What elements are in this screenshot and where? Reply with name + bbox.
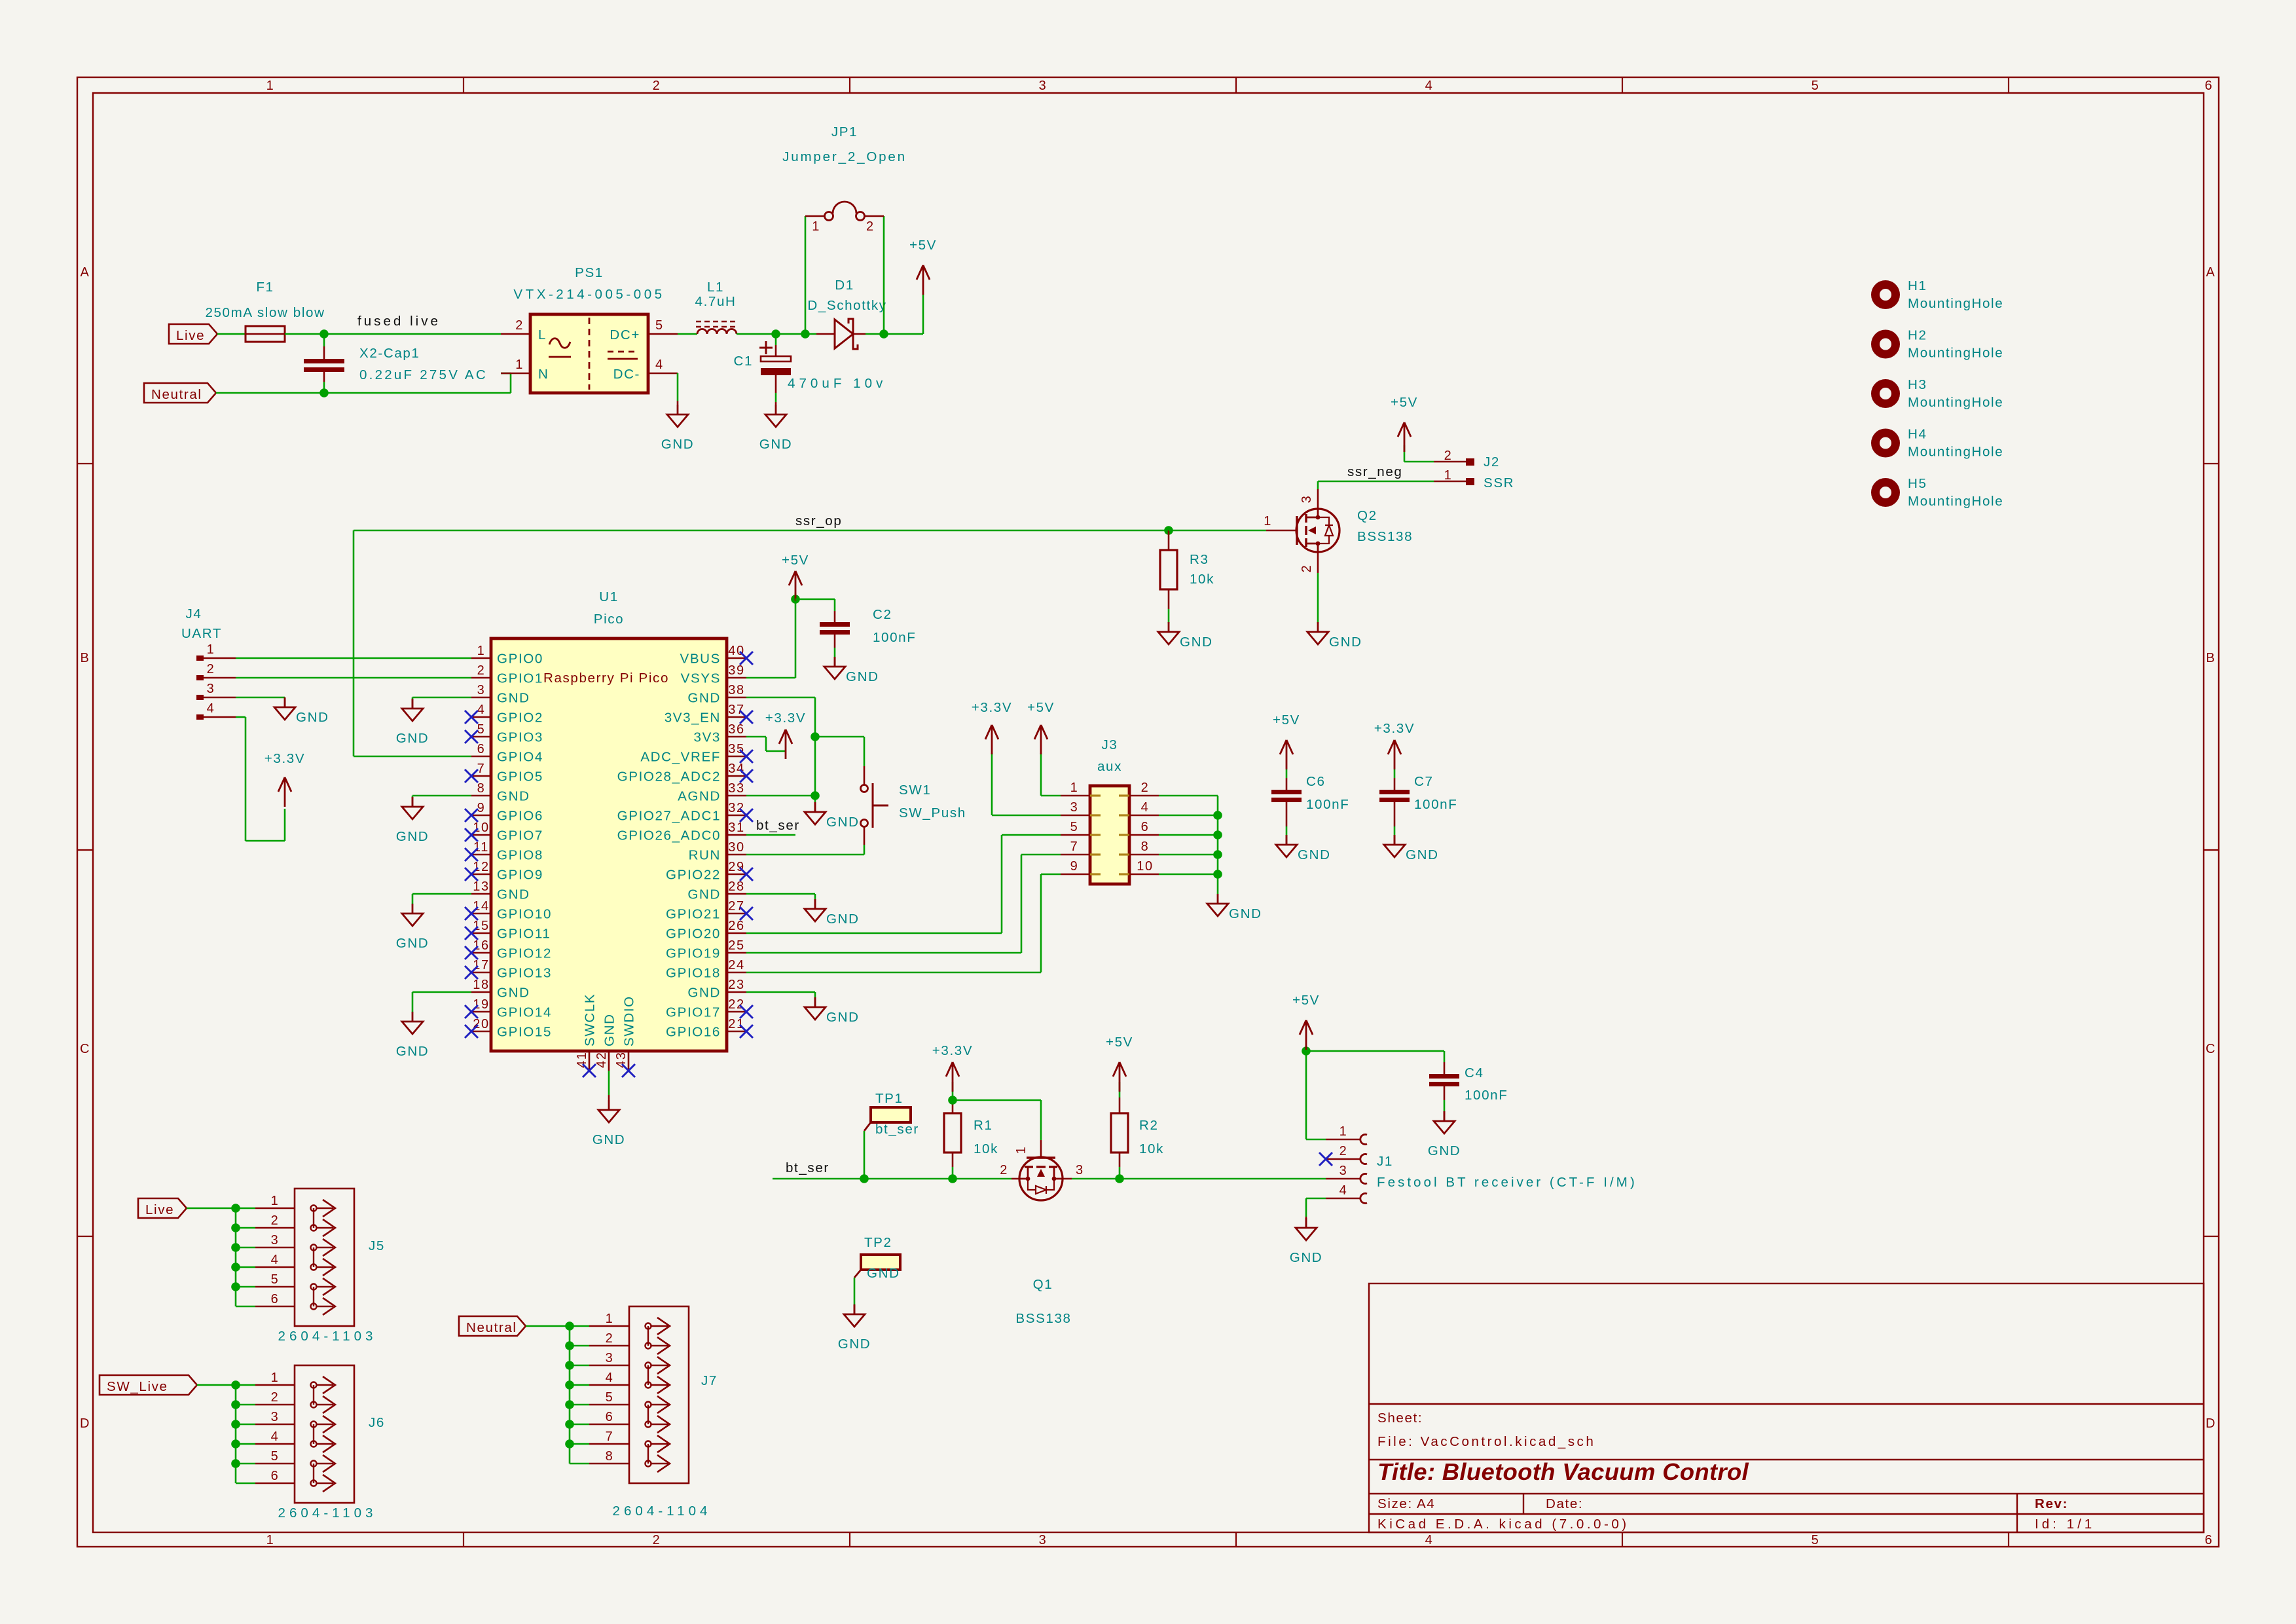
svg-text:GND: GND xyxy=(497,789,530,804)
svg-text:GND: GND xyxy=(661,437,695,452)
svg-text:43: 43 xyxy=(614,1052,629,1068)
svg-text:GND: GND xyxy=(1290,1250,1323,1265)
svg-text:35: 35 xyxy=(728,742,744,756)
svg-text:UART: UART xyxy=(181,626,222,641)
svg-text:Q1: Q1 xyxy=(1033,1277,1053,1292)
svg-text:14: 14 xyxy=(473,899,489,913)
svg-text:+3.3V: +3.3V xyxy=(765,710,806,726)
svg-text:13: 13 xyxy=(473,879,489,894)
svg-text:Date:: Date: xyxy=(1546,1496,1583,1511)
svg-text:2: 2 xyxy=(1444,449,1453,463)
svg-text:3: 3 xyxy=(1339,1164,1348,1178)
svg-text:GPIO18: GPIO18 xyxy=(666,966,721,981)
svg-text:24: 24 xyxy=(728,958,744,972)
svg-text:2: 2 xyxy=(606,1331,614,1346)
svg-text:bt_ser: bt_ser xyxy=(875,1122,919,1137)
svg-text:4: 4 xyxy=(271,1430,280,1444)
svg-text:4: 4 xyxy=(271,1253,280,1267)
svg-text:10k: 10k xyxy=(1139,1141,1164,1156)
svg-text:C2: C2 xyxy=(873,607,892,622)
svg-text:34: 34 xyxy=(728,762,744,776)
svg-text:Size: A4: Size: A4 xyxy=(1377,1496,1435,1511)
svg-text:1: 1 xyxy=(606,1312,614,1326)
svg-text:4: 4 xyxy=(606,1371,614,1385)
svg-text:B: B xyxy=(81,651,90,665)
svg-text:A: A xyxy=(2206,265,2216,280)
svg-text:VTX-214-005-005: VTX-214-005-005 xyxy=(513,287,665,302)
svg-text:GPIO11: GPIO11 xyxy=(497,927,551,942)
svg-text:GPIO1: GPIO1 xyxy=(497,671,543,686)
svg-text:VBUS: VBUS xyxy=(680,652,721,667)
svg-text:5: 5 xyxy=(271,1272,280,1287)
svg-text:GND: GND xyxy=(396,1044,429,1059)
svg-text:Festool BT receiver (CT-F I/M): Festool BT receiver (CT-F I/M) xyxy=(1377,1175,1637,1190)
svg-text:2: 2 xyxy=(1141,781,1150,795)
svg-text:AGND: AGND xyxy=(678,789,721,804)
svg-text:Title: Bluetooth Vacuum Contro: Title: Bluetooth Vacuum Control xyxy=(1377,1458,1749,1485)
svg-text:H3: H3 xyxy=(1908,377,1927,392)
svg-text:MountingHole: MountingHole xyxy=(1908,296,2003,311)
svg-text:4: 4 xyxy=(477,703,486,717)
svg-text:ADC_VREF: ADC_VREF xyxy=(640,750,721,765)
svg-text:2: 2 xyxy=(653,79,661,93)
svg-text:5: 5 xyxy=(1812,1533,1820,1547)
svg-text:ssr_op: ssr_op xyxy=(795,513,842,528)
svg-text:GND: GND xyxy=(497,691,530,706)
svg-text:VSYS: VSYS xyxy=(681,671,721,686)
svg-text:H1: H1 xyxy=(1908,278,1927,293)
svg-text:36: 36 xyxy=(728,722,744,737)
svg-text:MountingHole: MountingHole xyxy=(1908,395,2003,410)
svg-text:2: 2 xyxy=(271,1390,280,1405)
svg-text:GPIO16: GPIO16 xyxy=(666,1025,721,1040)
svg-text:1: 1 xyxy=(1339,1124,1348,1139)
svg-text:D1: D1 xyxy=(835,278,854,293)
svg-text:J7: J7 xyxy=(701,1373,718,1388)
svg-text:X2-Cap1: X2-Cap1 xyxy=(359,346,420,361)
svg-text:C1: C1 xyxy=(733,354,753,369)
svg-text:6: 6 xyxy=(2205,1533,2214,1547)
svg-text:GND: GND xyxy=(592,1132,626,1147)
svg-text:C4: C4 xyxy=(1465,1065,1484,1080)
svg-text:BSS138: BSS138 xyxy=(1015,1311,1071,1326)
svg-text:10: 10 xyxy=(1137,859,1153,874)
svg-text:1: 1 xyxy=(271,1194,280,1208)
svg-text:21: 21 xyxy=(728,1017,744,1031)
svg-text:GPIO14: GPIO14 xyxy=(497,1005,552,1020)
svg-text:4: 4 xyxy=(1339,1183,1348,1198)
svg-text:MountingHole: MountingHole xyxy=(1908,445,2003,460)
svg-text:Pico: Pico xyxy=(594,612,624,627)
svg-text:GND: GND xyxy=(396,829,429,844)
svg-text:4: 4 xyxy=(1425,79,1434,93)
svg-text:L1: L1 xyxy=(707,280,724,295)
svg-text:Sheet:: Sheet: xyxy=(1377,1411,1423,1426)
svg-text:SW_Push: SW_Push xyxy=(899,805,966,821)
svg-text:1: 1 xyxy=(1444,468,1453,483)
svg-text:1: 1 xyxy=(266,79,275,93)
svg-text:1: 1 xyxy=(812,219,820,234)
svg-text:2: 2 xyxy=(1300,564,1314,573)
svg-text:470uF 10v: 470uF 10v xyxy=(788,376,886,391)
svg-text:DC-: DC- xyxy=(613,367,640,382)
svg-text:4: 4 xyxy=(207,701,215,716)
svg-text:GPIO21: GPIO21 xyxy=(666,907,721,922)
svg-text:9: 9 xyxy=(477,801,486,815)
svg-text:+3.3V: +3.3V xyxy=(932,1043,973,1058)
svg-text:7: 7 xyxy=(477,762,486,776)
svg-text:Raspberry Pi Pico: Raspberry Pi Pico xyxy=(543,671,669,686)
svg-text:1: 1 xyxy=(1264,514,1272,528)
svg-text:C: C xyxy=(2206,1042,2216,1056)
svg-text:2: 2 xyxy=(271,1213,280,1228)
svg-text:GND: GND xyxy=(396,731,429,746)
svg-text:GND: GND xyxy=(867,1266,900,1281)
svg-text:GND: GND xyxy=(1329,635,1362,650)
svg-text:1: 1 xyxy=(477,644,486,658)
svg-text:DC+: DC+ xyxy=(610,327,640,342)
svg-text:7: 7 xyxy=(606,1430,614,1444)
svg-text:GPIO17: GPIO17 xyxy=(666,1005,721,1020)
svg-text:23: 23 xyxy=(728,978,744,992)
svg-text:18: 18 xyxy=(473,978,489,992)
svg-text:ssr_neg: ssr_neg xyxy=(1347,464,1402,479)
svg-text:SSR: SSR xyxy=(1484,475,1514,490)
svg-text:GPIO8: GPIO8 xyxy=(497,848,543,863)
svg-text:R1: R1 xyxy=(974,1118,993,1133)
svg-text:+3.3V: +3.3V xyxy=(1374,721,1415,736)
svg-text:SWCLK: SWCLK xyxy=(583,993,598,1046)
svg-text:3: 3 xyxy=(1076,1163,1084,1177)
svg-text:3: 3 xyxy=(271,1233,280,1247)
svg-text:31: 31 xyxy=(728,821,744,835)
svg-text:1: 1 xyxy=(1014,1146,1029,1154)
svg-text:6: 6 xyxy=(2205,79,2214,93)
svg-text:bt_ser: bt_ser xyxy=(786,1160,829,1175)
svg-text:+5V: +5V xyxy=(1106,1035,1133,1050)
svg-text:GPIO27_ADC1: GPIO27_ADC1 xyxy=(617,809,721,824)
svg-text:2604-1103: 2604-1103 xyxy=(278,1505,377,1521)
svg-text:5: 5 xyxy=(271,1449,280,1464)
svg-text:5: 5 xyxy=(606,1390,614,1405)
svg-text:GND: GND xyxy=(602,1013,617,1046)
svg-text:GPIO0: GPIO0 xyxy=(497,652,543,667)
svg-text:32: 32 xyxy=(728,801,744,815)
svg-text:GND: GND xyxy=(687,887,721,902)
svg-text:28: 28 xyxy=(728,879,744,894)
svg-text:3: 3 xyxy=(606,1351,614,1365)
svg-text:3V3_EN: 3V3_EN xyxy=(665,710,721,726)
svg-text:3: 3 xyxy=(271,1410,280,1424)
svg-text:100nF: 100nF xyxy=(1465,1088,1508,1103)
svg-text:2: 2 xyxy=(477,663,486,678)
svg-text:GND: GND xyxy=(1229,906,1262,921)
svg-text:C: C xyxy=(80,1042,90,1056)
svg-text:GPIO5: GPIO5 xyxy=(497,769,543,784)
svg-text:J1: J1 xyxy=(1377,1154,1393,1169)
svg-text:17: 17 xyxy=(473,958,489,972)
svg-text:27: 27 xyxy=(728,899,744,913)
svg-text:GND: GND xyxy=(826,1010,860,1025)
svg-text:SW1: SW1 xyxy=(899,783,931,798)
svg-text:KiCad E.D.A. kicad (7.0.0-0): KiCad E.D.A. kicad (7.0.0-0) xyxy=(1377,1517,1630,1532)
svg-text:GND: GND xyxy=(497,986,530,1001)
svg-text:GPIO6: GPIO6 xyxy=(497,809,543,824)
svg-text:2: 2 xyxy=(515,318,524,333)
svg-text:Live: Live xyxy=(145,1202,174,1217)
svg-text:GPIO4: GPIO4 xyxy=(497,750,543,765)
svg-text:aux: aux xyxy=(1097,759,1122,774)
svg-text:+5V: +5V xyxy=(1273,712,1300,728)
svg-text:GND: GND xyxy=(826,912,860,927)
svg-text:H5: H5 xyxy=(1908,476,1927,491)
svg-text:GPIO12: GPIO12 xyxy=(497,946,552,961)
svg-text:2604-1103: 2604-1103 xyxy=(278,1329,377,1344)
svg-text:16: 16 xyxy=(473,938,489,953)
svg-text:4.7uH: 4.7uH xyxy=(695,294,737,309)
svg-text:GND: GND xyxy=(687,986,721,1001)
svg-text:5: 5 xyxy=(655,318,664,333)
svg-text:GND: GND xyxy=(1406,847,1439,862)
svg-text:GPIO15: GPIO15 xyxy=(497,1025,552,1040)
svg-text:GND: GND xyxy=(296,710,329,725)
svg-text:D: D xyxy=(2206,1416,2216,1431)
svg-text:JP1: JP1 xyxy=(831,124,858,139)
svg-text:MountingHole: MountingHole xyxy=(1908,494,2003,509)
svg-text:3: 3 xyxy=(1039,1533,1048,1547)
svg-text:29: 29 xyxy=(728,860,744,874)
svg-text:J3: J3 xyxy=(1102,737,1118,752)
svg-text:GND: GND xyxy=(396,936,429,951)
svg-text:+5V: +5V xyxy=(1391,395,1418,410)
svg-text:GPIO9: GPIO9 xyxy=(497,868,543,883)
svg-text:L: L xyxy=(538,327,547,342)
svg-text:100nF: 100nF xyxy=(1414,797,1457,812)
svg-text:40: 40 xyxy=(728,644,744,658)
svg-text:J4: J4 xyxy=(186,606,202,621)
svg-text:C7: C7 xyxy=(1414,774,1434,789)
svg-text:5: 5 xyxy=(1812,79,1820,93)
svg-text:BSS138: BSS138 xyxy=(1357,529,1413,544)
svg-text:R3: R3 xyxy=(1190,552,1209,567)
svg-text:3V3: 3V3 xyxy=(694,730,721,745)
svg-text:4: 4 xyxy=(655,358,664,372)
svg-text:fused live: fused live xyxy=(357,314,441,329)
svg-text:8: 8 xyxy=(477,781,486,796)
svg-text:26: 26 xyxy=(728,919,744,933)
svg-text:+5V: +5V xyxy=(909,238,937,253)
svg-text:39: 39 xyxy=(728,663,744,678)
svg-text:J6: J6 xyxy=(369,1415,385,1430)
svg-text:MountingHole: MountingHole xyxy=(1908,346,2003,361)
svg-text:GND: GND xyxy=(759,437,793,452)
svg-text:10: 10 xyxy=(473,821,489,835)
svg-text:15: 15 xyxy=(473,919,489,933)
svg-text:Neutral: Neutral xyxy=(466,1320,517,1335)
svg-text:+5V: +5V xyxy=(1027,700,1055,715)
svg-text:Neutral: Neutral xyxy=(151,387,202,402)
svg-text:1: 1 xyxy=(266,1533,275,1547)
svg-text:GPIO7: GPIO7 xyxy=(497,828,543,843)
svg-text:12: 12 xyxy=(473,860,489,874)
svg-text:10k: 10k xyxy=(974,1141,998,1156)
svg-text:3: 3 xyxy=(477,683,486,697)
svg-text:N: N xyxy=(538,367,549,382)
svg-text:TP2: TP2 xyxy=(864,1235,892,1250)
svg-text:GPIO26_ADC0: GPIO26_ADC0 xyxy=(617,828,721,843)
svg-text:+3.3V: +3.3V xyxy=(972,700,1012,715)
svg-text:2: 2 xyxy=(1339,1144,1348,1158)
svg-text:Q2: Q2 xyxy=(1357,508,1377,523)
svg-text:100nF: 100nF xyxy=(1306,797,1349,812)
svg-text:C6: C6 xyxy=(1306,774,1326,789)
svg-text:100nF: 100nF xyxy=(873,630,916,645)
svg-text:42: 42 xyxy=(594,1052,609,1068)
svg-text:GND: GND xyxy=(1180,635,1213,650)
svg-text:3: 3 xyxy=(1039,79,1048,93)
svg-text:H4: H4 xyxy=(1908,427,1927,442)
svg-text:+5V: +5V xyxy=(782,553,809,568)
svg-text:7: 7 xyxy=(1070,840,1079,854)
svg-text:37: 37 xyxy=(728,703,744,717)
svg-text:1: 1 xyxy=(207,642,215,657)
svg-text:TP1: TP1 xyxy=(875,1091,903,1106)
svg-text:1: 1 xyxy=(1070,781,1079,795)
svg-text:SWDIO: SWDIO xyxy=(622,995,637,1046)
svg-text:Rev:: Rev: xyxy=(2035,1496,2068,1511)
svg-text:1: 1 xyxy=(515,358,524,372)
svg-text:9: 9 xyxy=(1070,859,1079,874)
svg-text:GPIO19: GPIO19 xyxy=(666,946,721,961)
svg-text:GND: GND xyxy=(497,887,530,902)
svg-text:F1: F1 xyxy=(256,280,274,295)
svg-text:GND: GND xyxy=(846,669,879,684)
svg-text:GND: GND xyxy=(687,691,721,706)
svg-text:GPIO28_ADC2: GPIO28_ADC2 xyxy=(617,769,721,784)
svg-text:+5V: +5V xyxy=(1292,993,1320,1008)
svg-text:Live: Live xyxy=(176,328,205,343)
svg-text:0.22uF 275V AC: 0.22uF 275V AC xyxy=(359,367,488,382)
svg-text:10k: 10k xyxy=(1190,572,1214,587)
svg-text:GND: GND xyxy=(1428,1143,1461,1158)
svg-text:J2: J2 xyxy=(1484,454,1500,470)
svg-text:33: 33 xyxy=(728,781,744,796)
svg-text:41: 41 xyxy=(575,1052,589,1068)
svg-text:25: 25 xyxy=(728,938,744,953)
svg-text:11: 11 xyxy=(473,840,489,855)
svg-text:250mA slow blow: 250mA slow blow xyxy=(205,305,325,320)
svg-text:B: B xyxy=(2206,651,2216,665)
svg-text:5: 5 xyxy=(477,722,486,737)
svg-text:38: 38 xyxy=(728,683,744,697)
svg-text:22: 22 xyxy=(728,997,744,1012)
svg-text:SW_Live: SW_Live xyxy=(107,1379,168,1394)
svg-text:File: VacControl.kicad_sch: File: VacControl.kicad_sch xyxy=(1377,1434,1595,1449)
svg-text:PS1: PS1 xyxy=(575,265,604,280)
svg-text:3: 3 xyxy=(1300,495,1314,504)
svg-text:20: 20 xyxy=(473,1017,489,1031)
svg-text:H2: H2 xyxy=(1908,328,1927,343)
svg-text:19: 19 xyxy=(473,997,489,1012)
svg-text:3: 3 xyxy=(1070,800,1079,815)
svg-text:6: 6 xyxy=(477,742,486,756)
svg-text:6: 6 xyxy=(1141,820,1150,834)
svg-text:GPIO13: GPIO13 xyxy=(497,966,552,981)
svg-text:Id: 1/1: Id: 1/1 xyxy=(2035,1517,2095,1532)
svg-text:GND: GND xyxy=(826,815,860,830)
svg-text:8: 8 xyxy=(1141,840,1150,854)
svg-text:GND: GND xyxy=(1298,847,1331,862)
svg-text:4: 4 xyxy=(1141,800,1150,815)
svg-text:GND: GND xyxy=(838,1337,871,1352)
svg-text:GPIO22: GPIO22 xyxy=(666,868,721,883)
svg-text:2: 2 xyxy=(207,662,215,676)
svg-text:+3.3V: +3.3V xyxy=(264,751,305,766)
svg-text:GPIO3: GPIO3 xyxy=(497,730,543,745)
svg-text:2: 2 xyxy=(1000,1163,1008,1177)
svg-text:5: 5 xyxy=(1070,820,1079,834)
svg-text:6: 6 xyxy=(271,1292,280,1306)
svg-text:2: 2 xyxy=(866,219,875,234)
svg-text:A: A xyxy=(81,265,90,280)
svg-text:3: 3 xyxy=(207,682,215,696)
svg-text:D: D xyxy=(80,1416,90,1431)
svg-text:D_Schottky: D_Schottky xyxy=(807,298,886,313)
svg-text:6: 6 xyxy=(606,1410,614,1424)
svg-text:6: 6 xyxy=(271,1469,280,1483)
svg-text:GPIO2: GPIO2 xyxy=(497,710,543,726)
svg-text:J5: J5 xyxy=(369,1238,385,1253)
svg-text:R2: R2 xyxy=(1139,1118,1159,1133)
svg-text:U1: U1 xyxy=(599,589,619,604)
svg-text:GPIO10: GPIO10 xyxy=(497,907,552,922)
svg-text:4: 4 xyxy=(1425,1533,1434,1547)
svg-text:RUN: RUN xyxy=(689,848,721,863)
svg-text:bt_ser: bt_ser xyxy=(756,818,800,833)
svg-text:Jumper_2_Open: Jumper_2_Open xyxy=(782,149,907,164)
svg-text:2604-1104: 2604-1104 xyxy=(613,1504,712,1519)
svg-text:GPIO20: GPIO20 xyxy=(666,927,721,942)
svg-text:1: 1 xyxy=(271,1371,280,1385)
svg-text:30: 30 xyxy=(728,840,744,855)
svg-text:2: 2 xyxy=(653,1533,661,1547)
svg-text:8: 8 xyxy=(606,1449,614,1464)
